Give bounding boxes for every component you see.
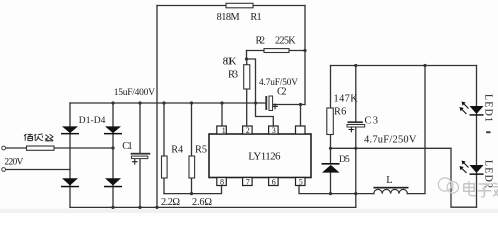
svg-text:147K: 147K (334, 94, 359, 105)
svg-text:2.2Ω: 2.2Ω (161, 197, 180, 208)
svg-text:C1: C1 (122, 141, 132, 152)
svg-text:4.7uF/250V: 4.7uF/250V (364, 135, 417, 146)
svg-text:C3: C3 (365, 115, 379, 126)
svg-text:R2: R2 (256, 35, 266, 46)
svg-text:1: 1 (222, 126, 226, 135)
svg-text:R5: R5 (195, 145, 207, 156)
svg-text:8: 8 (220, 177, 224, 186)
svg-text:R6: R6 (334, 107, 346, 118)
svg-text:D5: D5 (339, 155, 350, 165)
svg-text:225K: 225K (275, 35, 296, 46)
svg-text:R4: R4 (171, 145, 183, 156)
svg-text:2.6Ω: 2.6Ω (192, 197, 212, 208)
svg-text:818M: 818M (217, 12, 240, 23)
svg-text:220V: 220V (4, 157, 23, 167)
svg-text:L: L (386, 175, 392, 186)
svg-text:5: 5 (299, 177, 303, 186)
svg-text:D1-D4: D1-D4 (79, 116, 106, 126)
svg-text:LY1126: LY1126 (248, 151, 281, 163)
svg-text:LED1: LED1 (483, 94, 494, 122)
svg-text:15uF/400V: 15uF/400V (114, 88, 155, 98)
svg-text:R1: R1 (250, 12, 261, 23)
svg-text:C2: C2 (277, 86, 287, 97)
svg-text:2: 2 (246, 126, 250, 135)
svg-text:80K: 80K (223, 56, 237, 67)
svg-text:7: 7 (246, 177, 250, 186)
svg-text:3: 3 (272, 126, 276, 135)
svg-text:6: 6 (272, 177, 276, 186)
svg-text:R3: R3 (228, 69, 238, 80)
